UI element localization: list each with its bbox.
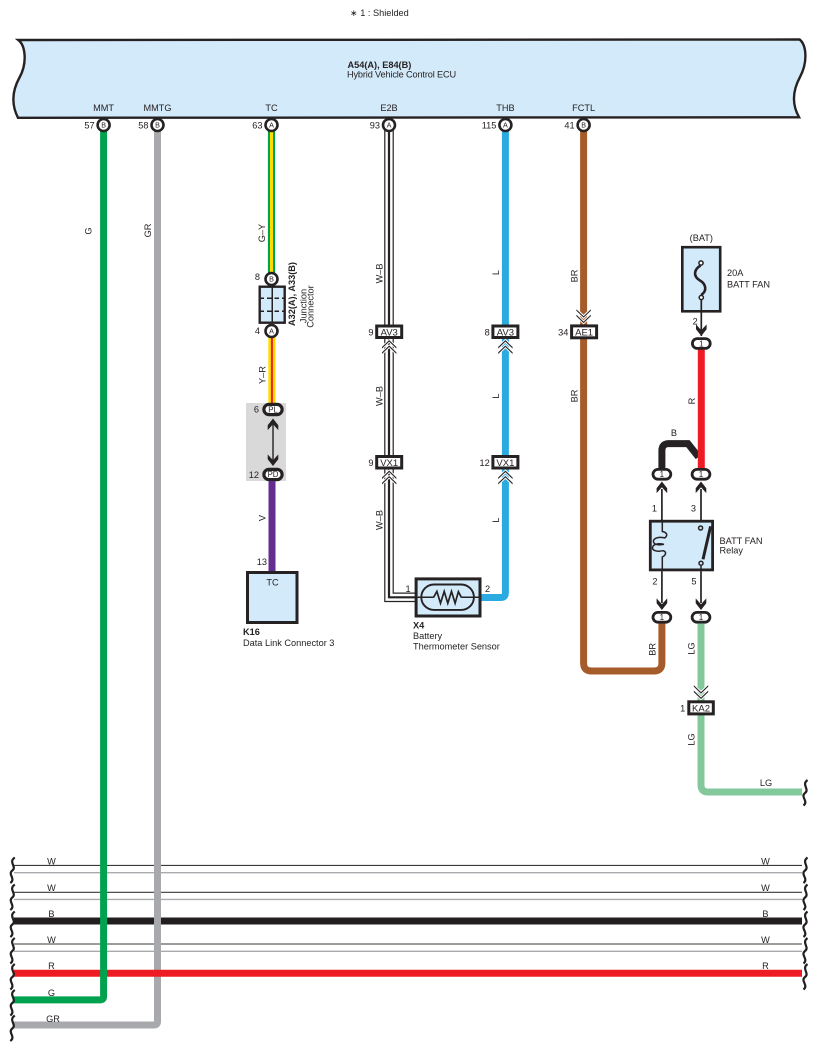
svg-text:Battery: Battery [413,631,443,641]
svg-text:BATT FAN: BATT FAN [720,536,763,546]
svg-text:BR: BR [569,389,579,402]
svg-text:W: W [47,935,56,945]
junction connector pin 4 circle A [266,325,278,337]
svg-text:B: B [101,121,106,130]
connector AE1 box [572,326,597,339]
wire G (MMT) green vertical + bottom horizontal [13,127,104,1000]
left edge break squiggle W3 [10,938,15,964]
svg-text:1: 1 [405,584,410,594]
svg-text:2: 2 [652,577,657,587]
svg-text:1: 1 [699,470,704,479]
relay pin1 lead wire [657,482,668,521]
junction connector pin 8 circle B [266,273,278,285]
svg-text:13: 13 [257,557,267,567]
svg-text:115: 115 [482,120,497,130]
svg-text:63: 63 [252,120,262,130]
relay pin3 lead wire [696,482,707,528]
right edge break squiggle R [803,964,807,990]
connector PD oval [264,469,282,479]
svg-text:G: G [48,988,55,998]
relay pin2 lead wire [657,571,668,610]
left edge break squiggle GR [10,1016,15,1042]
svg-text:AV3: AV3 [497,328,514,339]
ECU pin 41 circle B [578,119,590,131]
svg-text:LG: LG [687,733,697,745]
svg-text:W–B: W–B [375,263,385,283]
wire G-Y (TC) [268,127,275,279]
svg-text:GR: GR [46,1014,60,1024]
K16 Data Link Connector 3 box [248,573,298,623]
svg-text:20A: 20A [727,268,744,278]
svg-text:A32(A), A33(B): A32(A), A33(B) [287,262,297,326]
ECU A54(A) E84(B) block [13,40,805,118]
fuse 20A BATT FAN box [682,247,720,311]
bottom harness wire B (black) [14,918,802,925]
svg-text:LG: LG [760,778,772,788]
svg-text:B: B [155,121,160,130]
svg-text:W: W [47,883,56,893]
svg-text:12: 12 [249,470,259,480]
svg-text:41: 41 [564,120,574,130]
left edge break squiggle G [10,990,15,1016]
svg-text:B: B [48,909,54,919]
svg-text:VX1: VX1 [380,458,398,469]
svg-text:MMTG: MMTG [143,103,171,113]
junction connector A32(A) A33(B) box [260,287,286,323]
svg-text:34: 34 [558,328,568,338]
ECU pin 58 circle B [152,119,164,131]
svg-text:PL: PL [268,405,278,414]
svg-text:9: 9 [368,328,373,338]
left edge break squiggle R [10,964,15,990]
svg-text:12: 12 [479,458,489,468]
svg-text:A: A [269,327,274,336]
svg-text:THB: THB [496,103,514,113]
connector KA2 box [689,702,714,715]
wire B black [662,444,699,471]
right edge break squiggle W1 [803,858,807,884]
svg-text:B: B [581,121,586,130]
twisted pair arrow between PL and PD [268,419,279,467]
svg-text:8: 8 [255,272,260,282]
bottom harness wire W1 (white) [14,865,802,872]
svg-text:A: A [503,121,508,130]
svg-text:BR: BR [569,269,579,282]
right edge break squiggle LG [803,780,807,806]
svg-text:GR: GR [143,223,153,237]
svg-text:2: 2 [693,317,698,327]
wire L (THB) blue [482,127,506,598]
svg-text:W: W [761,935,770,945]
svg-text:BR: BR [648,643,658,656]
connector AV3 (pin 9) box [377,326,402,339]
wire LG light green: relay pin5 down, through KA2, right to edge [701,624,802,793]
ECU pin 63 circle A [266,119,278,131]
wire V purple [269,481,276,571]
wire Y-R [268,331,275,404]
svg-text:L: L [491,393,501,398]
svg-text:1: 1 [699,339,704,348]
svg-text:B: B [671,428,677,438]
svg-text:VX1: VX1 [496,458,514,469]
svg-text:W: W [761,856,770,866]
connector oval 1 (relay pin5 bottom) [692,612,710,622]
svg-text:AV3: AV3 [381,328,398,339]
svg-text:Thermometer Sensor: Thermometer Sensor [413,642,500,652]
right edge break squiggle B [803,912,807,938]
svg-text:W–B: W–B [375,386,385,406]
ECU pin 57 circle B [98,119,110,131]
wire R red [698,346,705,470]
svg-text:LG: LG [687,642,697,654]
ECU pin 115 circle A [499,119,511,131]
svg-text:1: 1 [660,470,665,479]
X4 Battery Thermometer Sensor box [416,579,480,616]
wire GR (MMTG) gray vertical + bottom horizontal [13,127,158,1025]
svg-text:E2B: E2B [380,103,397,113]
bottom harness wire R (red) [14,970,802,977]
svg-text:TC: TC [266,578,279,588]
svg-text:R: R [687,397,697,404]
connector mark chevrons below AV3 pin8 [498,339,513,355]
svg-text:R: R [762,961,769,971]
svg-text:(BAT): (BAT) [690,233,713,243]
connector mark chevrons above AE1 [576,308,591,324]
svg-text:A: A [269,121,274,130]
connector oval 1 (battery feed) [692,339,710,349]
connector mark chevrons above KA2 [693,684,708,700]
svg-text:1: 1 [699,613,704,622]
svg-text:9: 9 [368,458,373,468]
connector oval 1 (relay pin1 top) [653,469,671,479]
right edge break squiggle W2 [803,885,807,911]
wire BR (FCTL) brown: down, right, up to relay pin2 oval [584,127,662,671]
svg-text:A: A [387,121,392,130]
svg-text:X4: X4 [413,620,425,630]
left edge break squiggle B [10,912,15,938]
svg-text:Data Link Connector 3: Data Link Connector 3 [243,638,334,648]
svg-text:L: L [491,270,501,275]
svg-text:FCTL: FCTL [572,103,595,113]
svg-text:B: B [762,909,768,919]
arrowhead into battery connector [696,324,707,336]
svg-text:∗ 1 : Shielded: ∗ 1 : Shielded [350,8,409,18]
svg-text:Relay: Relay [720,546,744,556]
svg-text:G: G [84,227,94,234]
wire W-B (E2B) white with black stripe [389,126,415,597]
svg-text:1: 1 [652,504,657,514]
svg-text:TC: TC [265,103,278,113]
svg-text:8: 8 [485,328,490,338]
svg-text:Y–R: Y–R [258,366,268,384]
connector oval 1 (relay pin3 top) [692,469,710,479]
svg-text:58: 58 [138,120,148,130]
svg-text:V: V [258,514,268,521]
svg-text:1: 1 [680,704,685,714]
svg-text:AE1: AE1 [575,328,593,339]
connector PL oval [264,404,282,414]
svg-text:BATT FAN: BATT FAN [727,280,770,290]
BATT FAN relay box [650,520,712,572]
svg-text:W: W [47,856,56,866]
svg-text:PD: PD [268,470,279,479]
left edge break squiggle W2 [10,885,15,911]
svg-text:4: 4 [255,326,260,336]
fuse pin 2 wire [700,300,702,336]
svg-text:3: 3 [691,504,696,514]
relay pin5 lead wire [696,571,707,610]
bottom harness wire W3 (white) [14,944,802,951]
svg-text:2: 2 [485,584,490,594]
svg-text:Connector: Connector [306,285,316,327]
svg-text:MMT: MMT [93,103,114,113]
svg-text:KA2: KA2 [692,704,710,715]
svg-text:W–B: W–B [375,510,385,530]
left edge break squiggle W1 [10,858,15,884]
svg-text:5: 5 [691,577,696,587]
bottom harness wire W2 (white) [14,892,802,899]
svg-text:57: 57 [84,120,94,130]
connector oval 1 (relay pin2 bottom) [653,612,671,622]
svg-text:L: L [491,517,501,522]
svg-text:6: 6 [254,405,259,415]
connector mark chevrons below VX1 pin12 [498,470,513,486]
svg-text:93: 93 [370,120,380,130]
right edge break squiggle W3 [803,938,807,964]
svg-text:B: B [269,275,274,284]
shield box (gray) around PL/PD [246,403,286,481]
connector VX1 (pin 9) box [377,457,402,470]
svg-text:K16: K16 [243,627,260,637]
connector AV3 (pin 8) box [493,326,518,339]
svg-text:G–Y: G–Y [257,224,267,242]
connector mark chevrons below VX1 pin9 [382,470,397,486]
ECU pin 93 circle A [383,119,395,131]
connector VX1 (pin 12) box [493,457,518,470]
svg-text:1: 1 [660,613,665,622]
connector mark chevrons below AV3 pin9 [382,339,397,355]
svg-text:R: R [48,961,55,971]
svg-text:Hybrid Vehicle Control ECU: Hybrid Vehicle Control ECU [347,69,456,79]
svg-text:W: W [761,883,770,893]
